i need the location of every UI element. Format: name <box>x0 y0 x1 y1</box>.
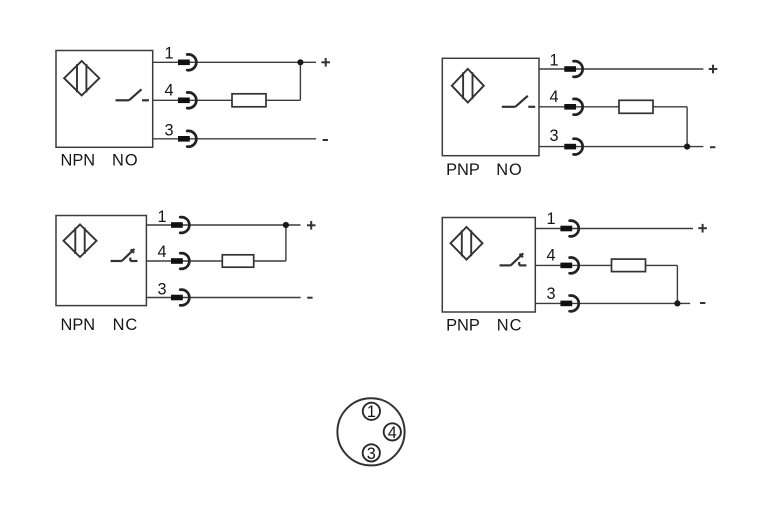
svg-text:4: 4 <box>164 82 173 100</box>
junction dot <box>674 300 680 306</box>
label PNP <box>446 161 480 179</box>
pin number 1 <box>157 208 166 226</box>
minus terminal <box>323 139 328 141</box>
proximity sensor symbol U2 (PNP NO) <box>452 69 484 103</box>
proximity sensor symbol U3 (NPN NC) <box>64 225 97 258</box>
svg-text:NO: NO <box>112 152 139 170</box>
load resistor U1 (NPN NO) <box>232 94 266 107</box>
label PNP <box>446 316 480 334</box>
wire pin3 to - rail <box>535 302 690 304</box>
load resistor U3 (NPN NC) <box>222 255 253 267</box>
svg-text:4: 4 <box>157 243 166 261</box>
proximity sensor symbol U1 (NPN NO) <box>64 61 99 95</box>
label NC <box>497 316 523 334</box>
connector pin 1 <box>363 403 380 422</box>
connector plug pin 4 <box>564 99 582 115</box>
connector pin 4 <box>384 423 401 442</box>
svg-text:3: 3 <box>157 280 166 298</box>
plus terminal <box>321 58 330 67</box>
wire pin4 output <box>539 106 687 108</box>
connector plug pin 1 <box>564 61 582 77</box>
svg-text:1: 1 <box>549 52 558 70</box>
svg-text:4: 4 <box>546 247 555 265</box>
svg-text:NC: NC <box>497 316 523 334</box>
svg-text:NPN: NPN <box>61 316 96 334</box>
output switch contact U3 (NPN NC) <box>111 249 138 261</box>
minus terminal <box>700 302 705 304</box>
minus terminal <box>307 297 312 299</box>
svg-text:3: 3 <box>367 445 376 463</box>
pin number 4 <box>549 88 558 106</box>
connector plug pin 1 <box>560 221 578 237</box>
connector plug pin 4 <box>560 258 578 274</box>
wire pin3 to - rail <box>539 146 703 148</box>
output switch contact U1 (NPN NO) <box>116 89 149 100</box>
label NPN <box>61 316 96 334</box>
minus terminal <box>710 146 715 148</box>
pin number 4 <box>157 243 166 261</box>
junction dot <box>684 144 690 150</box>
sensor box U4 (PNP NC) <box>442 218 535 313</box>
pin number 1 <box>549 52 558 70</box>
pin number 4 <box>546 247 555 265</box>
pin number 1 <box>546 210 555 228</box>
connector plug pin 3 <box>560 296 578 312</box>
link wire from load <box>285 225 287 261</box>
plus terminal <box>307 221 316 230</box>
connector face outline <box>337 398 404 465</box>
load resistor U2 (PNP NO) <box>619 100 653 113</box>
label NPN <box>61 152 96 170</box>
connector plug pin 3 <box>171 290 189 306</box>
junction dot <box>283 222 289 228</box>
plus terminal <box>709 65 718 74</box>
link wire from load <box>686 107 688 147</box>
svg-text:1: 1 <box>157 208 166 226</box>
label NC <box>113 316 139 334</box>
wire pin1 to + rail <box>535 228 693 230</box>
load resistor U4 (PNP NC) <box>612 259 646 272</box>
link wire from load <box>299 62 301 100</box>
pin number 3 <box>549 127 558 145</box>
connector plug pin 4 <box>171 253 189 269</box>
wire pin4 output <box>535 264 677 266</box>
wire pin3 to - rail <box>146 297 300 299</box>
wire pin4 output <box>153 99 301 101</box>
svg-text:3: 3 <box>164 122 173 140</box>
junction dot <box>297 59 303 65</box>
connector plug pin 3 <box>178 131 196 147</box>
sensor box U2 (PNP NO) <box>442 58 539 155</box>
svg-text:PNP: PNP <box>446 316 480 334</box>
pin number 3 <box>164 122 173 140</box>
output switch contact U4 (PNP NC) <box>500 253 527 265</box>
svg-text:NPN: NPN <box>61 152 96 170</box>
connector plug pin 4 <box>178 92 196 108</box>
connector pin 3 <box>363 444 380 463</box>
svg-text:1: 1 <box>367 403 376 421</box>
svg-text:4: 4 <box>388 424 397 442</box>
link wire from load <box>676 265 678 303</box>
svg-text:3: 3 <box>546 285 555 303</box>
pin number 3 <box>157 280 166 298</box>
sensor box U1 (NPN NO) <box>56 51 153 148</box>
plus terminal <box>698 224 707 233</box>
svg-text:3: 3 <box>549 127 558 145</box>
svg-text:PNP: PNP <box>446 161 480 179</box>
wire pin4 output <box>146 260 286 262</box>
svg-text:4: 4 <box>549 88 558 106</box>
connector plug pin 3 <box>564 139 582 155</box>
pin number 1 <box>164 45 173 63</box>
wire pin3 to - rail <box>153 138 316 140</box>
connector plug pin 1 <box>178 54 196 70</box>
wire pin1 to + rail <box>153 61 316 63</box>
connector plug pin 1 <box>171 217 189 233</box>
output switch contact U2 (PNP NO) <box>502 96 535 107</box>
proximity sensor symbol U4 (PNP NC) <box>451 227 483 260</box>
svg-text:NC: NC <box>113 316 139 334</box>
wire pin1 to + rail <box>539 68 703 70</box>
wire pin1 to + rail <box>146 224 300 226</box>
svg-text:NO: NO <box>496 161 523 179</box>
pin number 4 <box>164 82 173 100</box>
svg-text:1: 1 <box>164 45 173 63</box>
svg-text:1: 1 <box>546 210 555 228</box>
sensor box U3 (NPN NC) <box>56 216 146 306</box>
label NO <box>496 161 523 179</box>
pin number 3 <box>546 285 555 303</box>
label NO <box>112 152 139 170</box>
